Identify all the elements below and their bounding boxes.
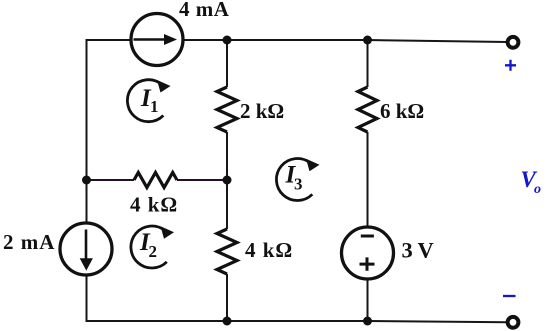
svg-text:3: 3 [402,238,413,263]
svg-text:4 kΩ: 4 kΩ [130,193,178,217]
svg-text:V: V [418,238,434,263]
svg-text:2 kΩ: 2 kΩ [240,99,284,123]
svg-text:3: 3 [294,175,303,194]
svg-text:2 mA: 2 mA [3,230,55,254]
svg-text:4 mA: 4 mA [179,0,230,21]
svg-text:1: 1 [150,97,159,116]
svg-text:4 kΩ: 4 kΩ [245,238,293,262]
svg-text:2: 2 [149,242,158,261]
svg-text:o: o [534,182,541,197]
svg-text:6 kΩ: 6 kΩ [380,99,424,123]
